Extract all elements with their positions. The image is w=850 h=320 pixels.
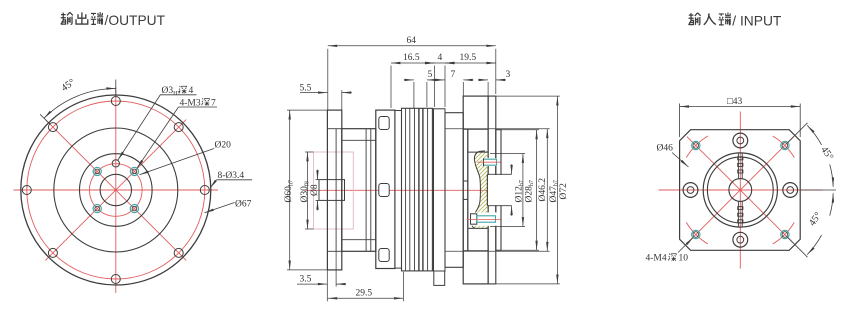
svg-text:/OUTPUT: /OUTPUT <box>105 13 166 28</box>
dim D30f8 <box>305 151 314 153</box>
svg-text:Ø46: Ø46 <box>657 144 674 154</box>
tab bottom <box>379 249 389 262</box>
ring gear flange <box>376 110 395 268</box>
pilot hidden top <box>463 128 488 130</box>
bore D8 <box>319 180 345 201</box>
centerline diagonal 45 <box>45 120 186 261</box>
svg-text:Ø72: Ø72 <box>559 183 569 200</box>
centerline <box>306 189 508 191</box>
leader pin hole label <box>118 95 161 161</box>
dim D8 <box>316 179 320 181</box>
dim D60h7 <box>287 109 327 111</box>
centerline horizontal <box>14 189 219 191</box>
svg-text:□43: □43 <box>727 97 742 107</box>
front housing D47 <box>342 129 376 252</box>
joint line <box>365 129 367 252</box>
centerline diagonal 135 <box>45 120 186 261</box>
input pilot plate <box>496 130 501 251</box>
spacer ring <box>434 109 446 271</box>
neck bottom <box>395 267 402 269</box>
svg-text:Ø60h7: Ø60h7 <box>284 180 295 202</box>
dim D72 <box>490 95 560 97</box>
dim D12h7 right <box>511 164 513 174</box>
dim 5 / 7 / 3 <box>413 82 415 108</box>
clamp slot top <box>738 154 743 179</box>
svg-text:Ø28h7: Ø28h7 <box>525 180 536 202</box>
bore D12 lines <box>463 174 511 205</box>
dim D28h7 <box>490 153 525 155</box>
bolt circle D20 red <box>90 164 143 217</box>
svg-text:16.5: 16.5 <box>403 53 420 63</box>
motor flange block D72 <box>463 96 488 284</box>
8 bolt holes D3.4 <box>22 97 209 284</box>
svg-text:19.5: 19.5 <box>460 53 477 63</box>
leader D46 <box>672 153 689 168</box>
45deg dim upper <box>787 123 836 190</box>
bottom plug <box>434 271 445 285</box>
pin hole D3 top <box>112 160 119 167</box>
clamp slot bottom <box>738 201 743 226</box>
circle D28 <box>80 154 153 227</box>
centerline vertical <box>739 112 741 269</box>
center bore <box>729 179 752 202</box>
neck top <box>395 110 402 112</box>
center bore D12 <box>100 174 131 205</box>
leader 8-D3.4 <box>210 180 217 188</box>
through hole E <box>783 183 798 198</box>
leader D20 <box>140 149 215 175</box>
pilot step line <box>335 129 337 252</box>
4 M3 tapped holes <box>93 167 138 212</box>
svg-text:7: 7 <box>211 98 216 108</box>
svg-text:4-M4: 4-M4 <box>646 254 667 264</box>
screw bottom <box>469 212 498 225</box>
M4 tapped hole SE <box>781 230 789 238</box>
svg-text:Ø46.2: Ø46.2 <box>538 178 548 202</box>
dim 29.5 <box>402 272 404 301</box>
svg-text:8-Ø3.4: 8-Ø3.4 <box>218 171 245 181</box>
M4 tapped hole NE <box>781 141 789 149</box>
plate <box>488 96 496 284</box>
centerline diagonal A <box>687 137 794 244</box>
svg-text:7: 7 <box>451 70 456 80</box>
svg-text:5.5: 5.5 <box>300 83 312 93</box>
screw top <box>482 158 498 166</box>
svg-text:4-M3: 4-M3 <box>180 98 201 108</box>
dim 5.5 <box>341 90 343 110</box>
outer body circle D72 <box>21 95 211 285</box>
bolt circle D67 red <box>27 101 205 279</box>
clamp ring inner <box>707 157 773 223</box>
svg-text:4: 4 <box>189 86 194 96</box>
svg-text:10: 10 <box>679 254 689 264</box>
tab middle <box>379 184 389 197</box>
svg-text:5: 5 <box>428 70 433 80</box>
svg-text:/ INPUT: / INPUT <box>732 13 782 28</box>
45deg angular dimension <box>40 80 116 124</box>
dim 16.5 / 4 / 19.5 <box>390 66 392 109</box>
dim D47h7 <box>445 128 550 130</box>
tab top <box>379 117 389 130</box>
spacer section <box>445 113 463 268</box>
output shaft hub D30f8 (phantom) <box>314 152 354 229</box>
dim texts middle <box>284 36 569 299</box>
clamp ring outer <box>703 153 777 227</box>
leader D67 <box>205 203 235 213</box>
circle D47 <box>54 128 178 252</box>
svg-text:Ø3H7: Ø3H7 <box>162 86 181 97</box>
joint line 2 <box>370 129 372 252</box>
dim D46.2 <box>501 129 539 131</box>
svg-text:3: 3 <box>506 70 511 80</box>
svg-text:45°: 45° <box>818 145 835 163</box>
centerline diagonal B <box>687 137 794 244</box>
adapter outline <box>472 151 485 229</box>
inner line top <box>342 139 376 141</box>
through hole N <box>733 133 748 148</box>
lamination block <box>402 108 433 271</box>
bolt circle arcs D46 red <box>686 136 794 244</box>
svg-text:Ø67: Ø67 <box>235 200 252 210</box>
centerline vertical <box>115 87 117 293</box>
svg-text:Ø12h7: Ø12h7 <box>514 180 525 202</box>
dim 64 <box>327 49 329 110</box>
svg-text:Ø20: Ø20 <box>215 141 232 151</box>
svg-text:3.5: 3.5 <box>300 275 312 285</box>
pilot hidden bottom <box>463 250 488 252</box>
M4 tapped hole SW <box>692 230 700 238</box>
45deg dim lower <box>787 193 833 257</box>
output flange D60 <box>327 110 341 270</box>
svg-text:45°: 45° <box>807 210 824 228</box>
cavity top edge <box>468 151 488 153</box>
dim D43 square <box>680 104 801 138</box>
svg-text:Ø8: Ø8 <box>310 184 320 196</box>
centerline horizontal <box>659 189 823 191</box>
cavity bottom edge <box>468 227 488 229</box>
through hole W <box>683 183 698 198</box>
square flange outline <box>680 130 801 251</box>
M4 tapped hole NW <box>692 141 700 149</box>
leader M3 label <box>137 107 179 168</box>
leader 4-M4 <box>678 238 693 253</box>
through hole S <box>733 232 748 247</box>
cavity left wall <box>467 129 469 250</box>
dim 3.5 bottom <box>326 270 328 301</box>
inner line bottom <box>342 239 376 241</box>
svg-text:45°: 45° <box>59 77 77 94</box>
svg-text:4: 4 <box>438 53 443 63</box>
svg-text:Ø30f8: Ø30f8 <box>300 181 311 202</box>
svg-text:64: 64 <box>407 36 417 46</box>
svg-text:29.5: 29.5 <box>356 289 373 299</box>
bore D12 white <box>488 175 511 205</box>
